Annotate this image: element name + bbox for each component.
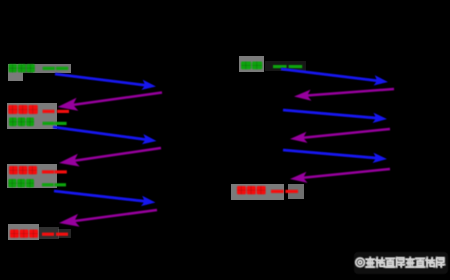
gray highlight behind right green label <box>239 56 264 72</box>
blue arrow right 3 <box>283 150 387 163</box>
purple arrow right 3 <box>290 169 390 183</box>
right label green text with dashes <box>241 62 302 70</box>
left label 3 green text with dash <box>9 118 67 127</box>
watermark @稀土掘金技术社区 <box>354 252 448 274</box>
gray highlight behind bottom-left label <box>8 224 39 240</box>
blue arrow right 1 <box>281 69 388 86</box>
gray highlight right of right red dash <box>288 184 304 199</box>
gray highlight behind right red label <box>231 184 284 200</box>
gray highlight behind top-left dashes <box>33 64 71 73</box>
purple arrow left 3 <box>59 210 157 227</box>
gray highlight behind left pair 2 <box>7 164 57 188</box>
right label red text with dash <box>237 186 298 194</box>
purple arrow right 1 <box>294 89 394 101</box>
left label 2 red text with dash <box>8 105 69 114</box>
blue arrow left 3 <box>54 191 156 206</box>
left label 1 green text with dashes <box>9 64 69 72</box>
purple arrow right 2 <box>290 129 390 143</box>
gray highlight behind bottom-left dash <box>58 229 71 238</box>
left label 4 red text with dash <box>9 166 67 174</box>
blue arrow right 2 <box>283 110 387 123</box>
left label 6 red text with dash <box>10 230 68 238</box>
gray highlight behind left pair 1 <box>7 103 57 129</box>
gray highlight behind right green dashes <box>265 61 306 71</box>
blue arrow left 1 <box>55 74 156 90</box>
left label 5 green text with dash <box>8 179 66 187</box>
purple arrow left 1 <box>58 93 162 111</box>
blue arrow left 2 <box>53 127 157 144</box>
gray highlight behind top-left label <box>8 64 23 81</box>
purple arrow left 2 <box>59 148 161 167</box>
